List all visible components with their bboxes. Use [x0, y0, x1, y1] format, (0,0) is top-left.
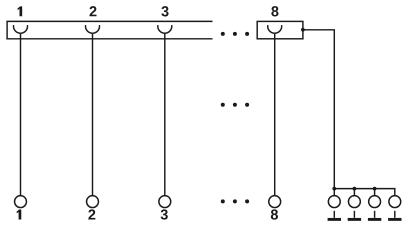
ground symbol 1 stem — [333, 211, 335, 218]
shield bus wire — [334, 189, 395, 196]
label pin 1 bottom — [17, 210, 22, 220]
stub to ground circle 3 — [374, 189, 376, 196]
stub to ground circle 2 — [353, 189, 355, 196]
ground symbol 4 bar — [388, 218, 401, 221]
socket contact 3 — [158, 25, 172, 33]
wire terminal 8 — [274, 33, 276, 195]
ground symbol 1 bar — [328, 218, 341, 221]
socket contact 2 — [86, 25, 100, 33]
terminal strip X1 right segment (terminal 8 box) — [257, 21, 303, 38]
ground symbol 2 stem — [353, 211, 355, 218]
ellipsis dots middle row — [221, 103, 249, 107]
wire terminal 3 — [164, 33, 166, 195]
pin circle 3 — [159, 196, 171, 208]
pin circle 2 — [87, 196, 99, 208]
ground circle 3 — [369, 196, 381, 208]
label pin 3 bottom — [161, 209, 168, 219]
terminal strip X1 left segment (open right side) — [7, 21, 212, 38]
label terminal 8 top — [271, 6, 278, 16]
ellipsis dots bottom row — [221, 199, 249, 203]
junction dot bus 2 — [353, 187, 357, 191]
socket contact 8 — [268, 25, 282, 33]
junction dot bus 3 — [373, 187, 377, 191]
junction dot at terminal 8 box output — [301, 28, 305, 32]
label terminal 3 top — [161, 6, 168, 16]
ground symbol 3 bar — [368, 218, 381, 221]
label pin 8 bottom — [271, 209, 278, 219]
ground symbol 3 stem — [374, 211, 376, 218]
wire from terminal 8 box to shield bus — [303, 30, 334, 189]
socket contact 1 — [14, 25, 28, 33]
wire terminal 1 — [20, 33, 22, 195]
stub to ground circle 1 — [333, 189, 335, 196]
ground circle 4 — [389, 196, 401, 208]
label pin 2 bottom — [88, 209, 95, 219]
label terminal 1 top — [18, 6, 23, 16]
pin circle 1 — [15, 196, 27, 208]
ground circle 2 — [348, 196, 360, 208]
pin circle 8 — [269, 196, 281, 208]
ground circle 1 — [328, 196, 340, 208]
ground symbol 4 stem — [394, 211, 396, 218]
junction dot bus 1 — [332, 187, 336, 191]
ground symbol 2 bar — [348, 218, 361, 221]
wire terminal 2 — [92, 33, 94, 195]
label terminal 2 top — [90, 6, 97, 16]
ellipsis dots top row — [221, 32, 249, 36]
